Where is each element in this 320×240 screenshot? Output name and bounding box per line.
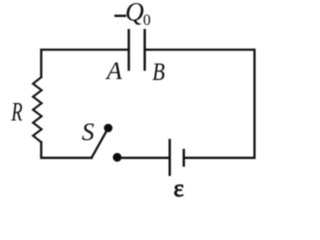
svg-text:A: A bbox=[105, 58, 123, 85]
battery long plate + bbox=[169, 140, 171, 175]
battery short plate - bbox=[183, 150, 185, 166]
switch pivot dot (upper) bbox=[104, 124, 113, 133]
minus sign of -Q0 bbox=[114, 15, 126, 17]
switch contact dot (on wire) bbox=[113, 153, 122, 162]
capacitor plate A (left plate) bbox=[128, 30, 130, 70]
svg-text:S: S bbox=[82, 119, 95, 146]
capacitor plate B (right plate) bbox=[144, 30, 146, 70]
switch S lever arm bbox=[92, 131, 107, 158]
wire: switch contact to battery long plate bbox=[118, 157, 169, 159]
svg-text:B: B bbox=[152, 58, 165, 85]
svg-text:R: R bbox=[11, 97, 23, 126]
resistor R zigzag bbox=[33, 77, 42, 142]
wire: top-right segment (capacitor plate B across, down right side, to battery short plate) bbox=[145, 50, 255, 158]
svg-text:Q: Q bbox=[125, 0, 144, 27]
wire: top-left segment (left wire up, across to capacitor plate A) bbox=[41, 50, 129, 77]
svg-text:ε: ε bbox=[174, 176, 185, 203]
label B (right plate) bbox=[152, 58, 165, 85]
svg-text:0: 0 bbox=[143, 12, 151, 29]
label R (resistor) bbox=[11, 97, 23, 126]
wire: bottom-left segment (below resistor to switch hinge) bbox=[41, 142, 91, 158]
